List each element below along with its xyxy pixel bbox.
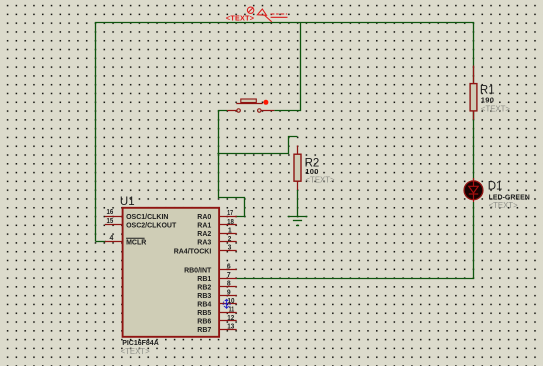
svg-text:RA2: RA2 xyxy=(197,231,211,238)
svg-text:<TEXT>: <TEXT> xyxy=(121,347,150,356)
svg-text:10: 10 xyxy=(228,298,235,305)
svg-text:<TEXT>: <TEXT> xyxy=(226,13,254,22)
svg-text:OSC2/CLKOUT: OSC2/CLKOUT xyxy=(126,223,177,230)
svg-text:3: 3 xyxy=(228,245,232,252)
svg-text:RB7: RB7 xyxy=(197,327,211,334)
svg-text:6: 6 xyxy=(227,264,231,271)
svg-text:16: 16 xyxy=(107,209,114,216)
svg-text:2: 2 xyxy=(228,236,232,243)
svg-text:D1: D1 xyxy=(488,180,503,192)
svg-text:4: 4 xyxy=(109,235,113,242)
svg-text:RA3: RA3 xyxy=(197,240,211,247)
svg-text:U1: U1 xyxy=(120,196,135,208)
svg-text:1: 1 xyxy=(228,227,232,234)
svg-text:15: 15 xyxy=(107,218,114,225)
svg-text:11: 11 xyxy=(229,306,235,313)
svg-text:RA1: RA1 xyxy=(197,223,211,230)
svg-text:<TEXT>: <TEXT> xyxy=(306,176,335,185)
svg-text:RA4/TOCKI: RA4/TOCKI xyxy=(174,248,212,255)
svg-text:RB6: RB6 xyxy=(197,319,211,326)
svg-text:<TEXT>: <TEXT> xyxy=(481,105,510,114)
svg-text:OSC1/CLKIN: OSC1/CLKIN xyxy=(126,214,168,221)
svg-text:17: 17 xyxy=(227,210,233,217)
svg-text:RB5: RB5 xyxy=(197,310,211,317)
svg-text:RB4: RB4 xyxy=(197,302,211,309)
svg-text:MCLR: MCLR xyxy=(126,240,146,247)
svg-text:18: 18 xyxy=(227,219,234,226)
svg-text:RA0: RA0 xyxy=(197,214,211,221)
svg-text:RB3: RB3 xyxy=(197,293,211,300)
svg-text:RB0/INT: RB0/INT xyxy=(184,267,212,274)
svg-text:RB2: RB2 xyxy=(197,284,211,291)
svg-text:7: 7 xyxy=(227,272,231,279)
svg-text:8: 8 xyxy=(227,281,231,288)
svg-text:RB1: RB1 xyxy=(197,276,211,283)
svg-text:13: 13 xyxy=(227,324,234,331)
svg-text:190: 190 xyxy=(481,95,495,104)
svg-text:<TEXT>: <TEXT> xyxy=(489,201,518,210)
svg-text:12: 12 xyxy=(227,315,234,322)
svg-text:9: 9 xyxy=(227,289,231,296)
